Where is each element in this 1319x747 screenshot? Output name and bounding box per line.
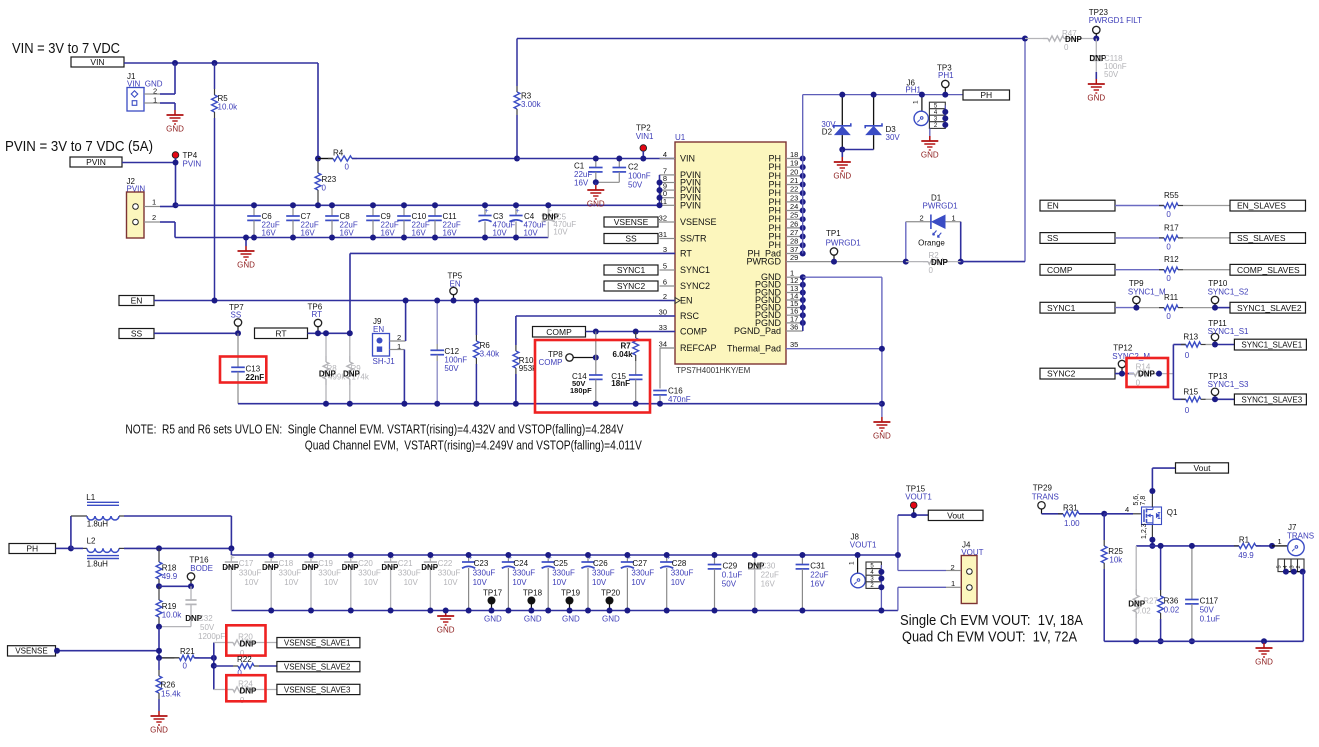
svg-text:20: 20 [790,167,798,176]
svg-text:Q1: Q1 [1167,508,1178,517]
node TP3 junction [942,92,948,98]
svg-text:23: 23 [790,193,798,202]
svg-text:16V: 16V [381,229,396,238]
testpoint TP5 EN [448,272,463,301]
node C29 bottom [712,608,718,614]
wire VOUT rail entry [230,548,232,555]
node TP5 junction [451,298,457,304]
svg-text:Quad Ch EVM VOUT: 1V, 72A: Quad Ch EVM VOUT: 1V, 72A [902,629,1077,646]
svg-text:SS: SS [131,329,143,339]
node D1 left junction [903,259,909,265]
node C2 top [616,156,622,162]
testpoint TP20 GND [601,589,621,624]
capacitor C8 22uF [325,205,358,237]
wire R1 to J7 [1272,537,1288,546]
node C11 bottom [432,235,438,241]
svg-text:26: 26 [790,219,798,228]
node J9 EN junction [403,298,409,304]
svg-text:L1: L1 [86,493,95,502]
svg-text:SYNC2: SYNC2 [1047,369,1076,379]
pin 14 PGND of U1 [755,292,803,306]
net label VSENSE_SLAVE2 [277,662,360,672]
highlight box R24 [226,675,265,701]
svg-text:0: 0 [183,662,188,671]
resistor R19 10.0k [156,586,182,626]
svg-text:50V: 50V [1200,606,1215,615]
wire Q1 gate [1104,505,1141,514]
wire RSC net [516,316,675,345]
svg-text:21: 21 [790,176,798,185]
svg-text:+: + [485,208,489,215]
node thermal GND rail junction [879,401,885,407]
svg-text:SYNC1_SLAVE3: SYNC1_SLAVE3 [1241,395,1302,404]
svg-text:VIN = 3V to 7 VDC: VIN = 3V to 7 VDC [12,40,120,57]
testpoint TP18 GND [523,589,543,624]
pin label 1,2,3 [1141,523,1148,539]
node PGND pin junction [800,320,806,326]
testpoint TP29 TRANS [1032,484,1059,509]
LED D1 PWRGD1 Orange [906,194,961,262]
svg-text:16V: 16V [761,580,776,589]
node TP15 junction [911,512,917,518]
svg-text:Vout: Vout [1193,463,1211,473]
node C20 top [348,552,354,558]
net label PH bottom [9,544,56,554]
capacitor C1 22uF [574,159,603,188]
pin 19 PH of U1 [768,159,802,173]
svg-text:GND: GND [484,615,502,624]
svg-text:50V: 50V [722,580,737,589]
svg-text:10V: 10V [553,228,568,237]
pin 3 RT of U1 [660,245,693,259]
resistor R5 10.0k [212,63,238,301]
wire PVIN rail [176,204,660,206]
node C7 bottom [290,235,296,241]
svg-text:16V: 16V [340,229,355,238]
capacitor C24 330uF [502,554,535,610]
resistor R21 0 [159,647,214,671]
svg-text:DNP: DNP [240,687,258,696]
svg-text:C31: C31 [810,562,825,571]
node C16 bottom [657,401,663,407]
svg-text:33: 33 [659,323,667,332]
node C30 bottom [752,608,758,614]
svg-text:TP18: TP18 [523,589,543,598]
svg-text:SS: SS [231,311,242,320]
svg-text:100nF: 100nF [628,172,651,181]
wire J7 shield bus [1283,569,1306,575]
svg-text:15.4k: 15.4k [161,690,182,699]
pin 21 PH of U1 [768,176,802,190]
svg-text:COMP: COMP [1047,265,1073,275]
resistor R25 10k [1101,514,1123,642]
svg-text:GND: GND [524,615,542,624]
svg-text:TP20: TP20 [601,589,621,598]
svg-text:SYNC2: SYNC2 [680,281,710,291]
svg-text:10V: 10V [443,578,458,587]
svg-text:R31: R31 [1063,504,1078,513]
svg-text:GND: GND [833,172,851,181]
svg-text:SYNC1_S3: SYNC1_S3 [1208,380,1249,389]
node TP13 junction [1212,396,1218,402]
capacitor C18 330uF DNP [262,554,301,610]
svg-text:0: 0 [929,266,934,275]
svg-text:C20: C20 [358,559,373,568]
net SS to SS_SLAVES with resistor R17 [1040,223,1306,251]
node C1 bottom junction [593,179,599,185]
svg-text:NOTE: R5 and R6 sets UVLO EN:: NOTE: R5 and R6 sets UVLO EN: Single Cha… [125,423,624,437]
svg-text:DNP: DNP [240,640,258,649]
wire SS net [154,332,238,334]
svg-text:1: 1 [952,214,956,223]
svg-text:GND: GND [602,615,620,624]
svg-text:10.0k: 10.0k [162,611,183,620]
svg-text:49.9: 49.9 [162,572,178,581]
svg-text:SS_SLAVES: SS_SLAVES [1237,233,1286,243]
node D3 top [871,92,877,98]
node PGND pin junction [800,312,806,318]
svg-text:16V: 16V [262,229,277,238]
resistor R7 6.04k [613,332,639,375]
svg-text:0.1uF: 0.1uF [722,571,743,580]
resistor R8 499k DNP [319,333,346,403]
svg-text:16V: 16V [301,229,316,238]
annotation NOTE line2 [305,439,643,453]
svg-text:C28: C28 [672,559,687,568]
node C9 top [370,202,376,208]
node PH pin junction [800,156,806,162]
wire SYNC1_SLAVE3 row [1173,387,1234,415]
highlight box compensation [535,340,650,413]
resistor R36 0.02 [1158,546,1180,641]
svg-text:GND: GND [587,200,605,209]
svg-text:VSENSE: VSENSE [15,647,47,656]
svg-text:+: + [231,554,235,561]
svg-text:22uF: 22uF [761,571,779,580]
ground R26 [150,711,168,735]
svg-text:SYNC1_SLAVE1: SYNC1_SLAVE1 [1241,340,1302,349]
svg-text:330uF: 330uF [358,569,381,578]
node PVIN pin junction [657,202,663,208]
svg-text:7,8: 7,8 [1140,496,1147,506]
wire TP16 tap [159,585,191,587]
svg-text:C21: C21 [398,559,413,568]
node PH pin junction [800,164,806,170]
wire Vout label wire [898,514,928,516]
capacitor C29 0.1uF [708,555,743,611]
svg-text:EN: EN [680,296,693,306]
svg-text:6.04k: 6.04k [613,350,634,359]
svg-text:VSENSE_SLAVE2: VSENSE_SLAVE2 [284,663,351,672]
node C19 top [308,552,314,558]
net label SYNC2 right [1040,368,1115,379]
svg-text:COMP: COMP [539,358,563,367]
svg-text:REFCAP: REFCAP [680,343,717,353]
testpoint TP3 PH1 [937,64,954,95]
pin 9 PVIN of U1 [660,182,702,196]
svg-text:DNP: DNP [319,370,337,379]
node C117 top [1189,543,1195,549]
pin EN arrow [675,298,680,304]
svg-text:3: 3 [1290,565,1296,568]
svg-text:SYNC2: SYNC2 [617,281,646,291]
node D2 top [839,92,845,98]
svg-text:0: 0 [1166,242,1171,251]
svg-text:0: 0 [1185,406,1190,415]
svg-text:5: 5 [663,262,667,271]
net label SYNC2 [604,281,658,291]
svg-text:18: 18 [790,150,798,159]
svg-text:25: 25 [790,211,798,220]
svg-text:BODE: BODE [190,564,213,573]
node C3 top [482,202,488,208]
svg-text:4: 4 [1283,565,1289,568]
node C31 bottom [799,608,805,614]
svg-text:5: 5 [1277,565,1283,568]
pin 25 PH of U1 [768,211,802,225]
svg-text:SS/TR: SS/TR [680,234,707,244]
node C25 bottom [545,608,551,614]
svg-text:Orange: Orange [918,239,945,248]
svg-text:PVIN = 3V to 7 VDC (5A): PVIN = 3V to 7 VDC (5A) [5,138,153,155]
net label SS [604,234,658,244]
ground output caps [437,611,455,635]
wire PVIN pin bus [659,175,661,205]
svg-text:0: 0 [1185,351,1190,360]
testpoint TP15 VOUT1 [905,485,932,516]
svg-text:10V: 10V [284,578,299,587]
pin 36 PGND_Pad of U1 [734,323,803,337]
node PVIN junction [173,160,179,166]
node PGND pin junction [800,282,806,288]
svg-text:0: 0 [1064,43,1069,52]
svg-text:330uF: 330uF [552,569,575,578]
svg-text:10V: 10V [473,578,488,587]
node R23 top junction [315,156,321,162]
node C28 bottom [664,608,670,614]
svg-text:330uF: 330uF [398,569,421,578]
transistor Q1 NMOS [1142,507,1179,525]
node R18 bottom junction [156,583,162,589]
svg-text:10V: 10V [592,578,607,587]
wire PWRGD top net [517,39,1025,262]
svg-text:TRANS: TRANS [1032,493,1059,502]
node TP16 junction [188,583,194,589]
pin 18 PH of U1 [768,150,802,164]
node PH pin junction [800,199,806,205]
net label COMP [533,327,586,338]
svg-text:SYNC1: SYNC1 [1047,303,1076,313]
svg-text:0: 0 [345,163,350,172]
svg-text:22: 22 [790,185,798,194]
svg-text:C30: C30 [761,562,776,571]
svg-text:330uF: 330uF [592,569,615,578]
svg-text:GND: GND [150,726,168,735]
node TP9 junction [1133,305,1139,311]
svg-text:VOUT1: VOUT1 [905,493,932,502]
svg-text:50V: 50V [200,623,215,632]
wire PH to inductors [56,547,71,549]
svg-text:0: 0 [1166,210,1171,219]
node C18 top [268,552,274,558]
connector J8 VOUT1 SMA [849,533,882,590]
wire J9 pin2 to EN [390,301,406,342]
svg-text:330uF: 330uF [671,569,694,578]
resistor R2 0 DNP [906,251,961,275]
svg-text:18nF: 18nF [611,379,630,388]
pin 30 RSC of U1 [659,308,700,322]
svg-text:PWRGD1: PWRGD1 [826,239,862,248]
pin 6 SYNC2 of U1 [660,278,711,292]
node output GND tap [443,608,449,614]
svg-text:32: 32 [659,214,667,223]
svg-text:VSENSE_SLAVE3: VSENSE_SLAVE3 [284,685,351,694]
node PVIN pin junction [657,187,663,193]
svg-text:2: 2 [1296,565,1302,568]
resistor R24 0 DNP [214,680,277,706]
resistor R20 0 DNP [214,633,277,659]
wire GND rail top section [238,403,882,405]
connector J1 VIN_GND [127,72,163,111]
node thermal junction [879,346,885,352]
node PWRGD top corner [1022,36,1028,42]
capacitor C23 330uF [462,554,495,610]
pin 13 PGND of U1 [755,284,803,298]
pin 28 PH of U1 [768,237,802,251]
svg-text:RSC: RSC [680,311,700,321]
svg-text:6: 6 [663,278,667,287]
highlight box R20 [226,625,265,655]
svg-text:SS: SS [625,234,637,244]
node PGND pin junction [800,290,806,296]
svg-text:0.1uF: 0.1uF [1200,615,1221,624]
svg-text:DNP: DNP [381,563,399,572]
node C10 bottom [401,235,407,241]
testpoint TP4 PVIN [172,151,201,169]
svg-text:COMP_SLAVES: COMP_SLAVES [1237,265,1300,275]
node R31 out junction [1101,511,1107,517]
node J6 pin1 junction [919,92,925,98]
svg-text:TP17: TP17 [483,589,503,598]
node C29 top [712,552,718,558]
highlight box R14 [1127,358,1169,387]
node TP18 junction [528,608,534,614]
wire J4 pin1 [898,587,961,610]
svg-text:L2: L2 [87,536,96,545]
svg-text:0: 0 [1166,274,1171,283]
wire PGND bus [802,277,804,331]
svg-text:16V: 16V [412,229,427,238]
node C3 bottom [482,235,488,241]
capacitor C16 470nF [653,348,691,404]
capacitor C3 470uF [478,205,515,237]
svg-text:R36: R36 [1164,597,1179,606]
pin 15 PGND of U1 [755,299,803,313]
node C8 top [329,202,335,208]
node R36 top [1158,543,1164,549]
node C26 bottom [585,608,591,614]
node VIN-R5 junction [212,60,218,66]
wire J1 pin2 to VIN [144,63,175,94]
net label PH [963,90,1010,100]
svg-text:3.40k: 3.40k [480,350,501,359]
svg-text:EN: EN [373,325,384,334]
svg-text:R13: R13 [1183,333,1198,342]
net label SYNC1_SLAVE3 [1234,394,1306,405]
svg-text:DNP: DNP [343,370,361,379]
net label VSENSE [604,217,658,227]
capacitor C118 100nF DNP [1089,39,1126,80]
pin 32 VSENSE of U1 [659,214,717,228]
svg-text:RT: RT [312,310,323,319]
svg-text:R22: R22 [237,655,252,664]
svg-text:10.0k: 10.0k [218,103,239,112]
net label VSENSE bottom [8,646,56,656]
svg-text:C18: C18 [279,559,294,568]
node R8 bottom [323,401,329,407]
svg-text:TP19: TP19 [561,589,581,598]
resistor R26 15.4k [156,658,181,711]
node C117 bottom [1189,638,1195,644]
svg-text:GND: GND [562,615,580,624]
testpoint TP6 RT [308,303,323,334]
svg-text:330uF: 330uF [318,569,341,578]
svg-text:DNP: DNP [262,563,280,572]
node TP12 junction [1119,371,1125,377]
svg-text:GND: GND [237,261,255,270]
capacitor C12 100nF [430,301,467,404]
net label PVIN [70,157,122,167]
svg-text:1,2,3: 1,2,3 [1141,523,1148,539]
pin 5 SYNC1 of U1 [660,262,711,276]
resistor R6 3.40k [474,301,501,404]
net label SYNC1 [604,265,658,275]
svg-text:SS: SS [1047,233,1059,243]
node R23 bottom junction [315,202,321,208]
svg-text:PGND_Pad: PGND_Pad [734,326,781,336]
ground D2 D3 [833,150,851,181]
node TP11 junction [1212,342,1218,348]
svg-text:SYNC1_S1: SYNC1_S1 [1208,327,1249,336]
node C23 bottom [466,608,472,614]
testpoint TP13 SYNC1_S3 [1208,372,1249,400]
node VSENSE junction [156,648,162,654]
svg-text:16V: 16V [443,229,458,238]
wire load bottom rail [1104,640,1303,642]
svg-text:3: 3 [663,245,667,254]
wire PWRGD net [0,0,1,1]
svg-text:GND: GND [1087,94,1105,103]
svg-text:VIN1: VIN1 [636,132,654,141]
node C12 top [434,298,440,304]
resistor R4 0 [318,149,517,172]
pin 8 PVIN of U1 [660,174,702,188]
resistor R1 49.9 [1234,536,1272,561]
svg-text:10V: 10V [364,578,379,587]
svg-text:10V: 10V [404,578,419,587]
wire Q1 source [1149,525,1155,546]
net label RT [255,328,308,339]
svg-text:4: 4 [1125,505,1129,514]
svg-text:10k: 10k [1109,556,1123,565]
node C18 bottom [268,608,274,614]
node EN-R5 junction [212,298,218,304]
svg-text:GND: GND [921,151,939,160]
node PH pin junction [800,242,806,248]
svg-text:D2: D2 [822,128,833,137]
op-amp U1 TPS7H4001HKY/EM body [675,133,786,375]
svg-text:1: 1 [152,198,156,207]
